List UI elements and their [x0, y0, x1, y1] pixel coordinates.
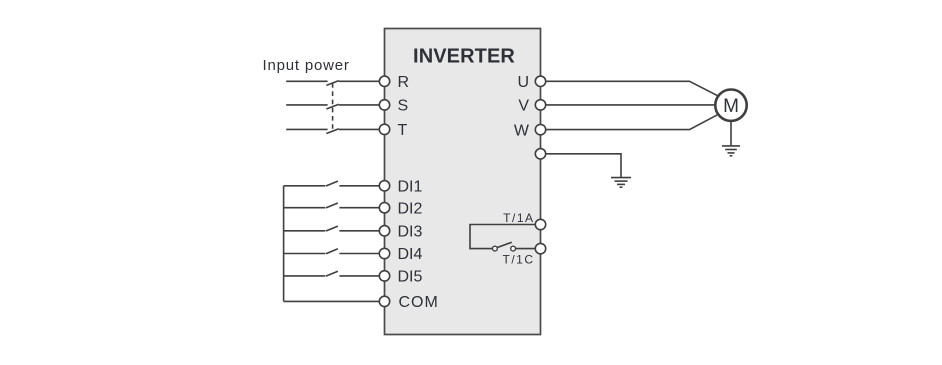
wire S input left segment [286, 104, 327, 106]
switch blade DI4 [326, 249, 338, 254]
wire DI3 right segment [339, 230, 379, 232]
inverter box U1 [385, 29, 541, 335]
wire U output [546, 81, 718, 95]
svg-text:COM: COM [399, 294, 439, 311]
wire T input left segment [286, 128, 327, 130]
wire T input right segment [339, 128, 379, 130]
svg-text:W: W [514, 122, 530, 139]
gang link dashed line [332, 83, 334, 131]
switch blade T [326, 129, 338, 134]
wire R input right segment [339, 80, 379, 82]
switch blade R [326, 81, 338, 86]
svg-text:DI2: DI2 [398, 200, 423, 217]
svg-text:U: U [517, 74, 529, 91]
svg-text:M: M [723, 96, 739, 117]
terminal DI3 [379, 226, 389, 236]
svg-text:R: R [398, 74, 410, 91]
wire DI4 left segment [284, 253, 326, 255]
terminal T/1C [535, 243, 545, 253]
wire DI5 left segment [284, 275, 326, 277]
terminal U [535, 76, 545, 86]
terminal DI2 [379, 203, 389, 213]
terminal DI1 [379, 181, 389, 191]
wire W output [546, 115, 718, 130]
ground symbol PE [611, 178, 631, 188]
switch blade DI3 [326, 226, 338, 231]
terminal DI5 [379, 271, 389, 281]
svg-text:DI3: DI3 [398, 224, 423, 241]
wire DI1 right segment [339, 185, 379, 187]
svg-text:T/1A: T/1A [503, 211, 534, 225]
wire R input left segment [286, 80, 327, 82]
terminal T [379, 124, 389, 134]
wire DI4 right segment [339, 253, 379, 255]
wire DI2 right segment [339, 207, 379, 209]
switch blade DI2 [326, 203, 338, 208]
terminal V [535, 100, 545, 110]
wire V output [546, 104, 715, 106]
ground symbol motor [722, 146, 740, 156]
DI bus vertical wire [283, 186, 285, 302]
relay contact right pole [511, 246, 516, 251]
terminal DI4 [379, 248, 389, 258]
svg-text:Input power: Input power [263, 57, 350, 74]
terminal W [535, 124, 545, 134]
wire DI5 right segment [339, 275, 379, 277]
svg-text:DI4: DI4 [398, 246, 423, 263]
terminal COM [379, 296, 389, 306]
svg-text:T/1C: T/1C [502, 253, 534, 267]
svg-text:DI5: DI5 [398, 269, 423, 286]
wire COM [284, 300, 380, 302]
terminal T/1A [535, 219, 545, 229]
svg-text:T: T [398, 122, 408, 139]
terminal R [379, 76, 389, 86]
svg-text:INVERTER: INVERTER [413, 46, 515, 68]
switch blade DI5 [326, 271, 338, 276]
wire S input right segment [339, 104, 379, 106]
wire DI2 left segment [284, 207, 326, 209]
wire contact to T/1C [516, 248, 536, 250]
terminal S [379, 100, 389, 110]
relay contact left pole [493, 246, 498, 251]
wire motor to ground [730, 122, 732, 145]
wire DI3 left segment [284, 230, 326, 232]
motor M [715, 90, 746, 121]
svg-text:S: S [398, 98, 409, 115]
switch blade S [326, 104, 338, 109]
svg-text:V: V [518, 98, 529, 115]
relay contact blade [497, 242, 512, 247]
wire T/1A loop [470, 225, 535, 249]
terminal PE ground [535, 149, 545, 159]
svg-text:DI1: DI1 [398, 179, 423, 196]
wire DI1 left segment [284, 185, 326, 187]
wire PE to ground [546, 154, 621, 177]
switch blade DI1 [326, 181, 338, 186]
